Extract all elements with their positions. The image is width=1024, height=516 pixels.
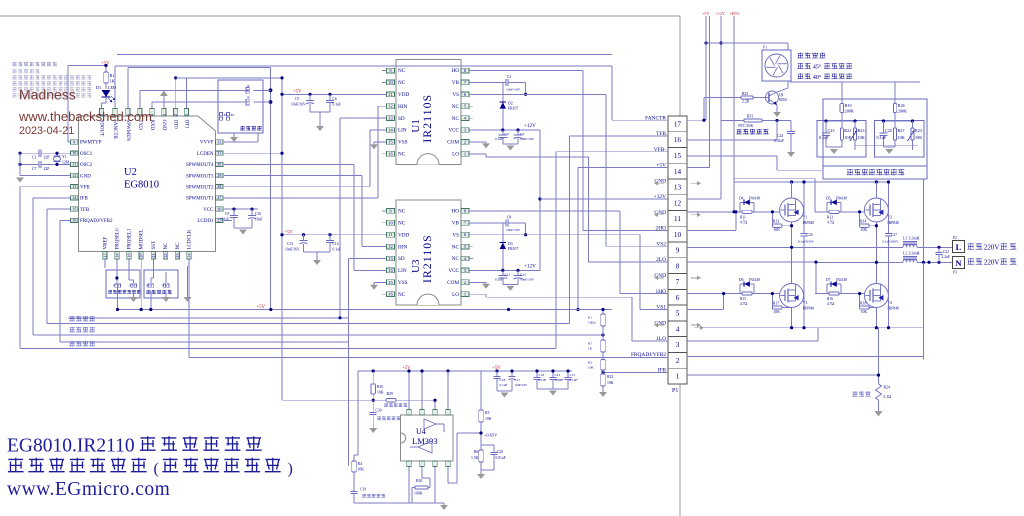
svg-text:VB: VB [452, 221, 460, 227]
svg-text:R29: R29 [387, 392, 393, 396]
svg-text:200K: 200K [845, 109, 854, 114]
svg-text:19: 19 [127, 253, 132, 257]
svg-text:C6: C6 [333, 97, 337, 101]
svg-text:FRQSEL0: FRQSEL0 [115, 228, 120, 250]
svg-text:C11: C11 [505, 272, 511, 276]
svg-text:10K: 10K [377, 391, 384, 395]
svg-text:1K: 1K [588, 347, 593, 351]
svg-text:DT1: DT1 [183, 120, 188, 130]
svg-text:JP: JP [146, 285, 149, 288]
svg-text:4: 4 [676, 325, 680, 333]
svg-text:C26: C26 [807, 233, 813, 237]
svg-text:10K: 10K [588, 365, 594, 369]
svg-text:R11: R11 [740, 215, 746, 219]
svg-text:0.1uF: 0.1uF [500, 383, 508, 387]
svg-text:R22: R22 [607, 375, 613, 379]
svg-text:2: 2 [173, 114, 178, 116]
svg-text:R10: R10 [377, 385, 383, 389]
svg-text:DT0: DT0 [173, 120, 178, 130]
svg-text:NC: NC [398, 80, 406, 86]
svg-text:11: 11 [388, 92, 392, 97]
svg-text:JP: JP [162, 285, 165, 288]
svg-text:FRQADJ/VFB2: FRQADJ/VFB2 [631, 352, 666, 358]
svg-text:10K: 10K [773, 228, 780, 232]
svg-text:JP: JP [247, 85, 250, 88]
svg-text:IN4148: IN4148 [749, 278, 760, 282]
svg-text:0.1uF: 0.1uF [539, 378, 547, 382]
svg-text:IN4148: IN4148 [836, 278, 847, 282]
svg-text:VREF: VREF [103, 237, 108, 250]
svg-text:D3: D3 [508, 242, 513, 246]
svg-text:SPWMOUT4: SPWMOUT4 [186, 163, 214, 168]
svg-text:VDD: VDD [398, 232, 409, 238]
svg-text:R21: R21 [844, 128, 851, 133]
svg-text:3: 3 [161, 114, 166, 116]
svg-text:Y1: Y1 [62, 155, 67, 159]
svg-text:12: 12 [72, 173, 76, 178]
svg-text:C20: C20 [497, 450, 503, 454]
svg-text:EG8010.IR2110: EG8010.IR2110 [7, 436, 135, 457]
svg-text:17: 17 [674, 120, 682, 128]
svg-text:+12V: +12V [716, 11, 726, 16]
svg-text:1: 1 [676, 373, 680, 381]
svg-text:LO: LO [452, 152, 459, 158]
svg-text:C22: C22 [943, 250, 949, 254]
svg-text:NC: NC [398, 221, 406, 227]
svg-text:+5V: +5V [293, 90, 302, 95]
svg-text:0.1uF: 0.1uF [570, 378, 578, 382]
svg-text:100Ω: 100Ω [588, 321, 596, 325]
svg-text:R7: R7 [588, 342, 592, 346]
svg-text:2: 2 [464, 280, 466, 285]
svg-text:C19: C19 [360, 488, 366, 492]
svg-text:10uF/16V: 10uF/16V [520, 137, 535, 141]
svg-text:SD: SD [398, 116, 405, 122]
svg-text:LCDCLK: LCDCLK [188, 229, 193, 249]
svg-text:10K: 10K [858, 135, 865, 140]
svg-text:JP: JP [247, 97, 250, 100]
svg-text:C21: C21 [555, 373, 561, 377]
svg-text:3: 3 [676, 341, 680, 349]
svg-text:Q1: Q1 [779, 93, 784, 97]
svg-text:C27: C27 [891, 233, 897, 237]
svg-text:D6: D6 [739, 278, 744, 282]
svg-text:15: 15 [72, 206, 76, 211]
svg-text:C3: C3 [505, 132, 509, 136]
svg-text:30: 30 [217, 162, 221, 167]
svg-text:VVVF: VVVF [200, 141, 214, 146]
svg-text:+0.65V: +0.65V [484, 433, 498, 438]
svg-text:IFB: IFB [80, 197, 88, 202]
svg-text:P1: P1 [672, 388, 678, 394]
svg-text:EG8010: EG8010 [124, 180, 159, 191]
svg-text:+5V: +5V [702, 11, 709, 16]
svg-text:NC: NC [452, 116, 460, 122]
svg-text:FRQSEL1: FRQSEL1 [128, 228, 133, 250]
svg-text:V3: V3 [803, 301, 808, 305]
svg-text:R15: R15 [740, 297, 746, 301]
svg-text:0.1uF: 0.1uF [495, 137, 503, 141]
svg-text:P2: P2 [953, 236, 957, 240]
svg-text:26: 26 [217, 206, 221, 211]
svg-text:2: 2 [676, 357, 680, 365]
svg-text:FR107: FR107 [508, 247, 518, 251]
svg-text:27: 27 [217, 195, 221, 200]
svg-text:10uF/16V: 10uF/16V [520, 277, 535, 281]
svg-text:0.1uF: 0.1uF [495, 277, 503, 281]
svg-text:220V: 220V [984, 243, 1000, 251]
svg-text:23: 23 [175, 253, 180, 257]
svg-text:NC: NC [398, 209, 406, 215]
svg-text:13: 13 [674, 184, 682, 192]
svg-text:11: 11 [72, 162, 76, 167]
svg-text:R25: R25 [742, 92, 748, 96]
svg-text:12: 12 [388, 104, 392, 109]
svg-text:R26: R26 [898, 103, 905, 108]
svg-text:12M: 12M [62, 161, 70, 165]
svg-text:1K: 1K [110, 79, 115, 84]
svg-text:VDD: VDD [398, 92, 409, 98]
svg-text:10: 10 [72, 151, 76, 156]
svg-text:10K: 10K [861, 228, 868, 232]
svg-text:31: 31 [217, 151, 221, 156]
svg-text:28: 28 [217, 184, 221, 189]
svg-text:C8: C8 [507, 215, 512, 219]
svg-text:SST: SST [152, 241, 157, 250]
svg-text:R23: R23 [915, 128, 922, 133]
svg-text:10K: 10K [915, 135, 922, 140]
svg-text:1000P: 1000P [555, 378, 564, 382]
svg-text:R2: R2 [588, 360, 592, 364]
svg-text:6: 6 [676, 294, 680, 302]
svg-text:220V: 220V [984, 258, 1000, 266]
svg-text:C12: C12 [520, 272, 526, 276]
svg-text:JP: JP [129, 285, 132, 288]
svg-text:8050: 8050 [779, 98, 787, 102]
svg-text:22: 22 [163, 253, 168, 257]
svg-text:R1: R1 [588, 316, 592, 320]
svg-text:0.1uF: 0.1uF [877, 135, 887, 140]
svg-text:12: 12 [674, 199, 682, 207]
svg-text:C14: C14 [333, 242, 339, 246]
svg-text:2: 2 [464, 139, 466, 144]
svg-text:R18: R18 [860, 301, 866, 305]
svg-text:C15: C15 [570, 373, 576, 377]
svg-text:HO: HO [452, 68, 460, 74]
svg-text:OSC2: OSC2 [80, 163, 93, 168]
svg-text:29: 29 [217, 173, 221, 178]
svg-text:16: 16 [72, 218, 76, 223]
svg-text:NC: NC [398, 292, 406, 298]
svg-text:10K: 10K [358, 468, 365, 472]
svg-text:R24: R24 [884, 386, 890, 390]
svg-text:F1: F1 [763, 46, 767, 50]
svg-text:NTC/10K: NTC/10K [738, 124, 753, 128]
svg-text:NC: NC [452, 256, 460, 262]
svg-text:13: 13 [72, 184, 76, 189]
svg-text:C25: C25 [885, 128, 892, 133]
svg-text:0.1uF/630V: 0.1uF/630V [883, 240, 899, 244]
svg-text:IRF840: IRF840 [887, 221, 899, 225]
svg-text:5: 5 [676, 310, 680, 318]
svg-text:C24: C24 [777, 134, 783, 138]
svg-text:IN4148: IN4148 [749, 196, 760, 200]
svg-text:LO: LO [452, 292, 459, 298]
svg-text:VB: VB [452, 80, 460, 86]
svg-text:RT1: RT1 [747, 115, 754, 119]
svg-text:LCDEN: LCDEN [197, 152, 214, 157]
svg-text:NC: NC [176, 242, 181, 250]
svg-text:SPWMOUT3: SPWMOUT3 [186, 174, 214, 179]
svg-text:N: N [955, 258, 962, 268]
svg-text:C23: C23 [828, 128, 835, 133]
svg-text:VSS: VSS [398, 280, 408, 286]
svg-text:OSC1: OSC1 [80, 152, 93, 157]
svg-text:VS: VS [452, 232, 459, 238]
svg-text:100K: 100K [414, 492, 423, 496]
svg-text:R1: R1 [110, 73, 115, 78]
svg-text:4.7Ω: 4.7Ω [740, 220, 747, 224]
svg-text:1.5K: 1.5K [471, 456, 479, 460]
svg-text:R4: R4 [358, 462, 363, 466]
svg-text:32: 32 [217, 139, 221, 144]
svg-text:R19: R19 [845, 103, 852, 108]
svg-text:10uF: 10uF [255, 218, 262, 222]
svg-text:IR2110S: IR2110S [422, 234, 434, 283]
svg-text:9: 9 [676, 247, 680, 255]
svg-text:R17: R17 [773, 301, 779, 305]
svg-text:V1: V1 [803, 216, 808, 220]
svg-text:D1: D1 [96, 85, 101, 90]
svg-text:NC: NC [164, 242, 169, 250]
svg-text:R13: R13 [773, 220, 779, 224]
svg-text:0.01uF: 0.01uF [774, 139, 784, 143]
svg-text:10K: 10K [485, 417, 492, 421]
svg-text:LIN: LIN [398, 128, 407, 134]
svg-text:IRF840: IRF840 [887, 307, 899, 311]
svg-text:10K: 10K [607, 381, 614, 385]
svg-text:D4: D4 [739, 196, 744, 200]
svg-text:R14: R14 [860, 220, 866, 224]
svg-text:www.thebackshed.com: www.thebackshed.com [18, 109, 152, 124]
svg-text:C9: C9 [225, 212, 229, 216]
svg-text:P3: P3 [953, 271, 957, 275]
svg-text:NC: NC [452, 244, 460, 250]
svg-text:0.1uF/630V: 0.1uF/630V [798, 240, 814, 244]
svg-text:MODSEL: MODSEL [140, 229, 145, 250]
svg-text:0.1uF: 0.1uF [333, 103, 341, 107]
svg-text:R12: R12 [827, 215, 833, 219]
svg-text:R23: R23 [858, 128, 865, 133]
svg-text:10K: 10K [861, 310, 868, 314]
svg-text:0.01uF: 0.01uF [496, 456, 506, 460]
svg-text:SD: SD [398, 256, 405, 262]
svg-text:): ) [288, 461, 293, 478]
svg-text:C13: C13 [287, 242, 293, 246]
svg-text:R27: R27 [898, 128, 905, 133]
svg-text:VCC: VCC [203, 208, 214, 213]
svg-text:+B5V: +B5V [730, 11, 740, 16]
svg-text:Madness: Madness [19, 87, 76, 103]
svg-text:(: ( [154, 461, 159, 478]
svg-text:2.2uF: 2.2uF [942, 255, 950, 259]
svg-text:R16: R16 [827, 297, 833, 301]
svg-text:FRQADJ/VFB2: FRQADJ/VFB2 [80, 219, 113, 224]
svg-text:10uF/16V: 10uF/16V [285, 248, 300, 252]
svg-text:C1: C1 [32, 156, 37, 160]
svg-text:1: 1 [464, 151, 466, 156]
svg-text:14: 14 [674, 168, 682, 176]
svg-text:L2 3.3mH: L2 3.3mH [903, 251, 920, 256]
svg-text:R30: R30 [416, 479, 422, 483]
svg-text:VSS: VSS [398, 140, 408, 146]
svg-text:C17: C17 [515, 378, 521, 382]
svg-text:COM: COM [447, 280, 459, 286]
svg-text:U3: U3 [410, 259, 422, 273]
svg-text:VS: VS [452, 92, 459, 98]
svg-text:22P: 22P [44, 156, 50, 160]
svg-text:PWMTYP: PWMTYP [80, 141, 102, 146]
svg-text:11: 11 [388, 232, 392, 237]
svg-text:20: 20 [139, 253, 144, 257]
svg-text:C7: C7 [32, 167, 37, 171]
svg-text:HIN: HIN [398, 104, 407, 110]
svg-text:40°: 40° [813, 74, 822, 81]
svg-text:17: 17 [102, 253, 107, 257]
svg-text:18: 18 [114, 253, 119, 257]
svg-text:0.1Ω: 0.1Ω [884, 395, 892, 399]
svg-text:4.7Ω: 4.7Ω [827, 220, 834, 224]
svg-text:HO: HO [452, 209, 460, 215]
svg-text:1: 1 [184, 114, 189, 116]
svg-text:4.7Ω: 4.7Ω [740, 302, 747, 306]
svg-text:C18: C18 [500, 378, 506, 382]
svg-text:C5: C5 [295, 97, 299, 101]
svg-text:+5V: +5V [257, 305, 266, 310]
svg-text:2.2K: 2.2K [742, 100, 750, 104]
svg-text:VCC: VCC [448, 128, 459, 134]
svg-text:10K: 10K [773, 310, 780, 314]
svg-text:C2: C2 [507, 75, 512, 79]
svg-text:NC: NC [452, 104, 460, 110]
svg-text:10uF/16V: 10uF/16V [506, 87, 521, 91]
svg-text:U2: U2 [124, 167, 137, 178]
svg-text:10K: 10K [844, 135, 851, 140]
svg-text:7: 7 [676, 278, 680, 286]
svg-text:D7: D7 [826, 278, 831, 282]
svg-text:HIN: HIN [398, 244, 407, 250]
svg-text:+12V: +12V [524, 263, 536, 269]
svg-text:LIN: LIN [398, 268, 407, 274]
svg-text:10uF/16V: 10uF/16V [291, 103, 306, 107]
svg-text:U1: U1 [410, 119, 422, 132]
svg-text:NC: NC [398, 152, 406, 158]
svg-text:TFB: TFB [80, 208, 90, 213]
svg-text:C10: C10 [255, 212, 261, 216]
svg-text:4.7Ω: 4.7Ω [827, 302, 834, 306]
svg-text:10uF/16V: 10uF/16V [515, 383, 529, 387]
svg-text:NC: NC [398, 68, 406, 74]
svg-text:SPWMOUT1: SPWMOUT1 [186, 197, 214, 202]
svg-text:L: L [956, 242, 962, 252]
svg-text:8: 8 [676, 262, 680, 270]
svg-text:15: 15 [674, 152, 682, 160]
svg-text:+12V: +12V [524, 123, 536, 129]
svg-text:22P: 22P [44, 167, 50, 171]
svg-text:LCDD1: LCDD1 [197, 219, 214, 224]
svg-text:COM: COM [447, 140, 459, 146]
svg-text:2023-04-21: 2023-04-21 [19, 125, 74, 137]
svg-text:D2: D2 [508, 101, 513, 105]
svg-text:12: 12 [388, 244, 392, 249]
svg-text:JP: JP [113, 285, 116, 288]
svg-text:D5: D5 [826, 196, 831, 200]
svg-text:16: 16 [674, 136, 682, 144]
svg-text:45°: 45° [813, 64, 822, 71]
svg-text:21: 21 [151, 253, 156, 257]
svg-text:10K: 10K [898, 135, 905, 140]
svg-text:0.1uF: 0.1uF [819, 135, 829, 140]
svg-text:IN4148: IN4148 [836, 196, 847, 200]
svg-text:FR107: FR107 [508, 106, 518, 110]
svg-text:L1 3.3mH: L1 3.3mH [903, 235, 920, 240]
svg-text:VCC: VCC [448, 268, 459, 274]
svg-text:R6: R6 [474, 450, 479, 454]
svg-text:GND: GND [80, 174, 91, 179]
svg-text:C30: C30 [376, 409, 382, 413]
svg-text:200K: 200K [898, 109, 907, 114]
svg-text:10: 10 [674, 231, 682, 239]
svg-text:VFB: VFB [80, 185, 90, 190]
svg-text:11: 11 [674, 215, 681, 223]
svg-text:www.EGmicro.com: www.EGmicro.com [7, 479, 170, 500]
svg-text:GND: GND [161, 120, 166, 131]
svg-text:9: 9 [73, 139, 75, 144]
svg-text:C16: C16 [539, 373, 545, 377]
svg-text:C4: C4 [520, 132, 524, 136]
svg-text:R3: R3 [485, 411, 490, 415]
svg-text:1: 1 [464, 292, 466, 297]
svg-text:SPWMOUT2: SPWMOUT2 [186, 185, 214, 190]
svg-text:IR2110S: IR2110S [422, 94, 434, 143]
svg-text:0.1uF: 0.1uF [221, 218, 229, 222]
svg-text:10uF/16V: 10uF/16V [506, 228, 521, 232]
